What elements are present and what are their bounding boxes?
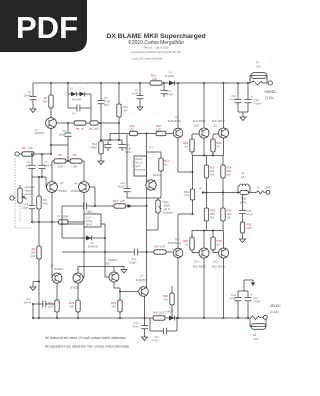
wire: lower caps line y=140 [101,139,122,141]
svg-text:R12: R12 [92,142,97,146]
svg-text:10R: 10R [156,127,161,131]
wire: LTP right collector down [80,192,84,278]
svg-text:2N5551: 2N5551 [70,286,80,290]
svg-text:100pF: 100pF [129,261,137,265]
svg-text:10R: 10R [73,165,78,169]
wire: bias bottom to lower base line [146,198,148,252]
wire: mid feedback line y=222 [32,221,84,223]
capacitor C19 47nF (top right) [230,82,242,112]
inductor L1 1uH [238,171,250,193]
svg-text:-45VDC: -45VDC [269,304,281,308]
diode D2 1N4148 [72,87,92,102]
svg-text:47uF: 47uF [132,325,138,329]
-45VDC terminal [263,304,281,319]
svg-text:R32: R32 [48,301,53,305]
svg-text:All resistors are rated 1/4 wa: All resistors are rated 1/4 watt unless … [45,336,126,340]
wire: LTP left collector down [51,192,53,278]
transistor Q4 BD139 (bias) [146,145,162,190]
svg-text:C13: C13 [120,181,125,185]
svg-text:R9: R9 [73,153,77,157]
wire: feedback base tap [89,187,95,206]
svg-text:2K: 2K [185,145,188,149]
wire: driver column x=178 top [178,83,193,172]
svg-text:R31: R31 [247,223,252,227]
svg-text:D5: D5 [169,71,173,75]
wire: emitter join line y=155.5 [192,155,224,157]
note box: mount on heatsink [134,156,147,176]
ground for zobel [240,236,246,243]
svg-text:10R: 10R [160,245,165,249]
svg-text:10R: 10R [247,226,252,230]
svg-text:heatsink: heatsink [135,168,146,172]
capacitor C7 with ground [132,82,144,104]
svg-text:F2: F2 [253,333,257,337]
svg-text:10R: 10R [69,305,74,309]
wire: diode branch return [90,94,92,123]
svg-text:680R: 680R [62,215,68,219]
svg-text:Q13: Q13 [213,260,219,264]
wire: output node line [203,192,238,194]
svg-text:R23: R23 [210,166,215,170]
svg-text:R28: R28 [241,197,246,201]
wire: servo mid line to box [62,224,105,238]
capacitor C24 470uF (bottom right) [245,291,261,319]
speaker return arrow (bottom right) [244,280,255,291]
svg-text:10A: 10A [256,65,261,69]
fuse F1 [250,61,268,86]
wire: rail left corner up to C11 [32,304,34,318]
svg-text:C7: C7 [135,88,139,92]
resistor R30 2K (base, mirror) [211,231,222,253]
svg-text:R29: R29 [183,239,188,243]
svg-text:R35: R35 [111,301,116,305]
transistor Q5 2N5551 [50,264,64,284]
svg-text:15K: 15K [42,100,47,104]
svg-text:100nF: 100nF [23,301,31,305]
svg-text:Licensed by Creative Commons B: Licensed by Creative Commons BY-NC-SA [131,50,181,54]
+45VDC terminal [264,81,277,100]
svg-text:C14: C14 [23,202,28,206]
svg-text:R21: R21 [184,190,189,194]
resistor R24 4R2 3W column x=223 [221,156,232,193]
capacitor C13 220nF [117,135,146,199]
svg-text:R25: R25 [210,209,215,213]
svg-text:pot 10K: pot 10K [25,192,34,196]
svg-text:47uF: 47uF [167,92,173,96]
svg-text:C16: C16 [131,257,136,261]
zobel resistor R31 [240,222,252,236]
wire: caps join to ground [238,112,248,114]
svg-text:MKP: MKP [86,223,92,227]
OUT terminal [257,186,271,195]
svg-text:15K: 15K [30,251,35,255]
resistor R19 2K (base) [183,134,199,156]
capacitor C10 47uF 100V [119,140,132,154]
svg-text:R19: R19 [183,141,188,145]
svg-text:BD139: BD139 [153,173,162,177]
wire: servo loop left [61,206,63,238]
ground on bracket [121,267,127,274]
resistor R7 680R [57,215,68,225]
svg-text:4R2: 4R2 [210,169,215,173]
svg-text:( mount D5 to main heat sink ): ( mount D5 to main heat sink ) [131,58,163,61]
svg-text:R40: R40 [153,311,158,315]
svg-text:R10: R10 [113,199,118,203]
svg-text:R17: R17 [164,159,169,163]
resistor R1 22K [22,146,52,156]
wire: top +V rail [33,82,250,84]
svg-text:Q14: Q14 [175,237,181,241]
resistor R4 [42,83,53,118]
svg-text:2N5401: 2N5401 [35,131,45,135]
resistor R25 4R2 3W mirror x=206.5 [204,193,215,231]
svg-text:10R: 10R [152,77,157,81]
svg-text:100V: 100V [125,150,131,154]
svg-text:MJL4302A: MJL4302A [193,265,206,269]
svg-text:Q7: Q7 [140,274,144,278]
svg-text:100nF: 100nF [44,164,52,168]
svg-text:Q4: Q4 [149,145,153,149]
svg-text:MJL4302A: MJL4302A [212,265,225,269]
svg-text:3W: 3W [227,216,231,220]
svg-text:C24: C24 [253,296,258,300]
svg-text:220nF: 220nF [117,185,125,189]
svg-text:R5: R5 [76,127,80,131]
svg-text:1uF: 1uF [25,164,30,168]
svg-text:C18: C18 [134,321,139,325]
resistor R6 [89,121,99,131]
capacitor C14 220pF input filter [22,177,35,222]
input terminal IN [15,152,22,156]
optional volume pot P1 [18,185,35,203]
svg-text:2K2: 2K2 [111,305,116,309]
wire: diode block left drop [67,83,69,108]
resistor R2 15K 1W on x=39 column [30,222,41,319]
ground for C7 [137,104,143,111]
wire: base line into LTP [32,177,47,187]
svg-text:adj on: adj on [164,207,172,211]
svg-text:volume: volume [25,188,34,192]
resistor R9 10R (LTP emitter) [66,153,84,182]
resistor R33 (Q6 emitter) [69,283,80,319]
svg-text:2N5401: 2N5401 [71,189,81,193]
svg-text:C2: C2 [27,160,31,164]
resistor R27b 2K (base, mirror) [183,231,199,253]
svg-text:1uF: 1uF [86,216,91,220]
svg-text:240R: 240R [91,146,97,150]
svg-text:1K: 1K [81,127,84,131]
svg-text:R15: R15 [130,124,135,128]
resistor R21 47R column x=192.5 [184,156,195,215]
svg-text:C12: C12 [88,210,93,214]
svg-text:C20: C20 [254,98,259,102]
svg-text:R8: R8 [58,153,62,157]
zobel capacitor C21 [239,195,253,222]
svg-text:10A: 10A [253,337,258,341]
resistor R20 2K (base) [211,134,222,156]
bias adjust note [164,200,175,215]
svg-text:R2: R2 [32,247,36,251]
transistor Q6 2N5551 [70,273,83,290]
svg-text:4R2: 4R2 [227,212,232,216]
svg-text:MJL3281A: MJL3281A [193,119,206,123]
wire: output column x=223.5 top [223,83,225,156]
svg-text:Q12: Q12 [194,260,200,264]
svg-text:+: + [251,95,253,99]
resistor R3 47K [37,177,48,223]
svg-text:R27: R27 [154,245,159,249]
svg-text:Q8: Q8 [106,262,110,266]
svg-text:C9: C9 [63,129,67,133]
capacitor C16 100pF inline [129,249,138,265]
svg-text:R16: R16 [156,124,161,128]
svg-text:47uF: 47uF [152,339,158,343]
capacitor C20 470uF (top right) [245,82,262,112]
svg-text:R13: R13 [151,74,156,78]
svg-text:Q2: Q2 [60,181,64,185]
svg-text:470uF: 470uF [254,102,262,106]
svg-text:47uF: 47uF [104,99,110,103]
svg-text:©2010 Carlos Mergulhão: ©2010 Carlos Mergulhão [128,39,184,46]
wire: driver base line y=133.5 [110,134,173,141]
svg-text:+45VDC: +45VDC [264,90,277,94]
svg-text:10R: 10R [159,311,164,315]
resistor R27 10R [154,245,166,255]
svg-text:Rev 0.1 - Oct, 6 2010: Rev 0.1 - Oct, 6 2010 [144,46,169,50]
ground for C6 [30,106,36,113]
transistor Q14 MJE15033 (bottom driver) [168,237,183,258]
svg-text:D3: D3 [90,241,94,245]
svg-text:R36: R36 [163,294,168,298]
capacitor C11 100nF bridge [23,297,54,319]
resistor R28 0R36 inline [238,190,256,204]
svg-text:3W: 3W [210,216,214,220]
svg-text:+: + [250,293,252,297]
wire: driver column x=178 bottom [178,214,193,318]
svg-text:2N5551: 2N5551 [108,258,118,262]
svg-text:Optional: Optional [25,185,35,189]
svg-text:C3: C3 [44,160,48,164]
resistor R17 2K (bias) [159,158,170,171]
diode D5 1N4007 on top rail [165,71,175,86]
resistor R15 360R [130,124,138,136]
svg-text:C4: C4 [72,112,76,116]
svg-text:R33: R33 [69,301,74,305]
svg-text:PDF: PDF [16,10,78,45]
resistor R26a 4R2 3W mirror x=223 [221,193,232,231]
transistor Q3 2N5401 (LTP right) [71,181,90,193]
resistor R16 10R [156,124,166,136]
svg-text:2K: 2K [164,163,167,167]
capacitor C17 47uF below rail [150,317,178,343]
svg-text:R30: R30 [217,239,222,243]
svg-text:OUT: OUT [265,186,271,190]
dashed optional-section boundary [15,158,32,228]
bias network loop [147,152,162,198]
svg-text:R24: R24 [227,166,232,170]
resistor R12 240R with ground [91,141,104,158]
svg-text:C11: C11 [26,297,31,301]
capacitor C9b 100nF [98,140,111,151]
svg-text:(3.5A): (3.5A) [265,96,274,100]
bias trimmer P2 260R [147,198,162,230]
wire: output column x=204 bottom [203,231,205,319]
resistor R32 (Q5 emitter) [48,283,59,319]
svg-text:1N4148: 1N4148 [88,244,98,248]
svg-text:3W: 3W [210,173,214,177]
svg-text:3W: 3W [227,173,231,177]
svg-text:C23: C23 [231,293,236,297]
svg-text:47nF: 47nF [230,297,236,301]
svg-text:Q14: Q14 [135,164,141,168]
DC servo box U1 [84,210,101,228]
svg-text:220p: 220p [22,206,28,210]
svg-text:heatsink: heatsink [164,211,175,215]
resistor R34 (Q8 emitter) [111,282,122,319]
capacitor C4 and tail feed column [50,123,72,162]
svg-text:D6: D6 [169,306,173,310]
capacitor C5 on column x=101 [98,82,111,140]
svg-text:25V: 25V [104,103,109,107]
svg-text:F1: F1 [256,61,260,65]
svg-text:1N4007: 1N4007 [165,310,175,314]
transistor Q8 2N5551 [106,258,119,282]
svg-text:47R: 47R [120,199,125,203]
svg-text:2N5551: 2N5551 [54,267,64,271]
wire: bottom -V rail [33,317,250,319]
capacitor C3 [39,154,52,177]
svg-text:Q11: Q11 [213,124,218,128]
svg-text:C6: C6 [28,90,32,94]
svg-text:360: 360 [130,127,135,131]
wire: mirror emitter join line y=230.5 [192,230,224,232]
resistor R8 10R (LTP emitter) [52,153,66,182]
capacitor C23 47nF (bottom right) [230,291,248,319]
svg-text:100V: 100V [86,219,92,223]
resistor R40 10R on bottom rail [153,311,165,321]
svg-text:D1: D1 [70,87,74,91]
svg-text:47uF: 47uF [132,92,138,96]
svg-text:47R: 47R [184,194,189,198]
svg-text:R20: R20 [217,141,222,145]
transistor Q2 2N5401 (LTP left) [47,181,68,193]
svg-text:1N4007: 1N4007 [165,74,175,78]
svg-text:4K7: 4K7 [123,109,128,113]
svg-text:2K: 2K [185,243,188,247]
ground tap lower-left [33,281,40,285]
transistor Q9 MJE15032 (top driver) [168,115,183,138]
svg-text:R6: R6 [89,127,93,131]
svg-text:1W: 1W [31,254,35,258]
svg-text:2K: 2K [217,243,220,247]
svg-text:L1: L1 [242,171,245,175]
svg-text:1uH: 1uH [241,175,246,179]
svg-text:C21: C21 [247,209,252,213]
diode D3 1N4148 servo [62,236,109,278]
wire: Q1 collector down to input node [50,128,52,154]
resistor R10 with arrow [95,199,147,208]
capacitor C4a parallel to diodes [68,105,91,116]
svg-text:Q9: Q9 [175,115,179,119]
wire: Q6 top bracket to Q8 [78,267,124,273]
capacitor C12 on servo top line [62,203,96,214]
resistor R23 4R2 3W column x=206.5 [204,156,215,193]
svg-text:C8: C8 [167,89,171,93]
svg-text:22K: 22K [28,146,33,150]
wire: output column x=223.5 bottom [223,231,225,319]
svg-text:Q5: Q5 [50,264,54,268]
resistor R5 [74,121,86,131]
svg-text:C17: C17 [154,335,159,339]
wire kink to OUT terminal [256,191,266,194]
resistor R13 on top rail [150,74,162,86]
svg-text:2K: 2K [217,145,220,149]
svg-text:Bias: Bias [164,200,170,204]
svg-text:MJE15032: MJE15032 [168,119,181,123]
svg-text:R4: R4 [44,96,48,100]
transistor Q13 MJL4302A [212,248,229,269]
svg-text:D2: D2 [79,87,83,91]
transistor Q11 MJL3281A [212,119,229,138]
svg-text:MJE350: MJE350 [136,278,146,282]
wire: output column x=204 top [203,83,205,156]
svg-text:1K2: 1K2 [94,127,99,131]
svg-text:4R2: 4R2 [227,169,232,173]
svg-text:10R: 10R [58,165,63,169]
svg-text:47uF: 47uF [125,146,131,150]
svg-text:1K2: 1K2 [163,298,168,302]
svg-text:Q10: Q10 [194,124,200,128]
wire: Q1 emitter line [56,122,119,124]
transistor Q10 MJL3281A [193,119,209,138]
svg-text:47nF: 47nF [230,98,236,102]
svg-text:Q3: Q3 [74,181,78,185]
svg-text:260R: 260R [164,204,170,208]
svg-text:C19: C19 [231,94,236,98]
svg-text:C10: C10 [125,143,130,147]
svg-text:100pF: 100pF [58,132,66,136]
resistor R14 on column x=119 [99,82,128,140]
capacitor C18 47uF with ground [132,318,148,334]
svg-text:47K: 47K [43,202,48,206]
svg-text:1N4148: 1N4148 [72,98,82,102]
svg-text:2N5401: 2N5401 [58,189,68,193]
fuse F2 [250,316,266,341]
transistor Q1 2N5401 [34,118,56,135]
resistor R36 (1K2) [163,286,174,319]
svg-text:DX BLAME MKII Supercharged: DX BLAME MKII Supercharged [106,33,205,40]
wire: lower base drive line y=252 [62,251,173,253]
svg-text:4R2: 4R2 [210,212,215,216]
svg-text:0R36: 0R36 [240,201,247,205]
capacitor C8 [161,82,174,97]
svg-text:MJE15033: MJE15033 [168,241,181,245]
diode D6 1N4007 on bottom rail [165,306,175,321]
input terminal 2 [10,196,16,200]
svg-text:(3.5A): (3.5A) [270,310,279,314]
svg-text:R14: R14 [123,105,128,109]
svg-text:C5: C5 [104,96,108,100]
capacitor C2 [25,154,35,177]
svg-text:R7: R7 [57,215,61,219]
capacitor C6 with lead from top rail [23,83,36,106]
svg-text:47nF: 47nF [247,213,253,217]
svg-text:10R: 10R [48,305,53,309]
svg-text:470uF: 470uF [253,300,261,304]
svg-text:Mount: Mount [135,157,143,161]
svg-text:R26: R26 [227,209,232,213]
svg-text:R1: R1 [22,146,26,150]
